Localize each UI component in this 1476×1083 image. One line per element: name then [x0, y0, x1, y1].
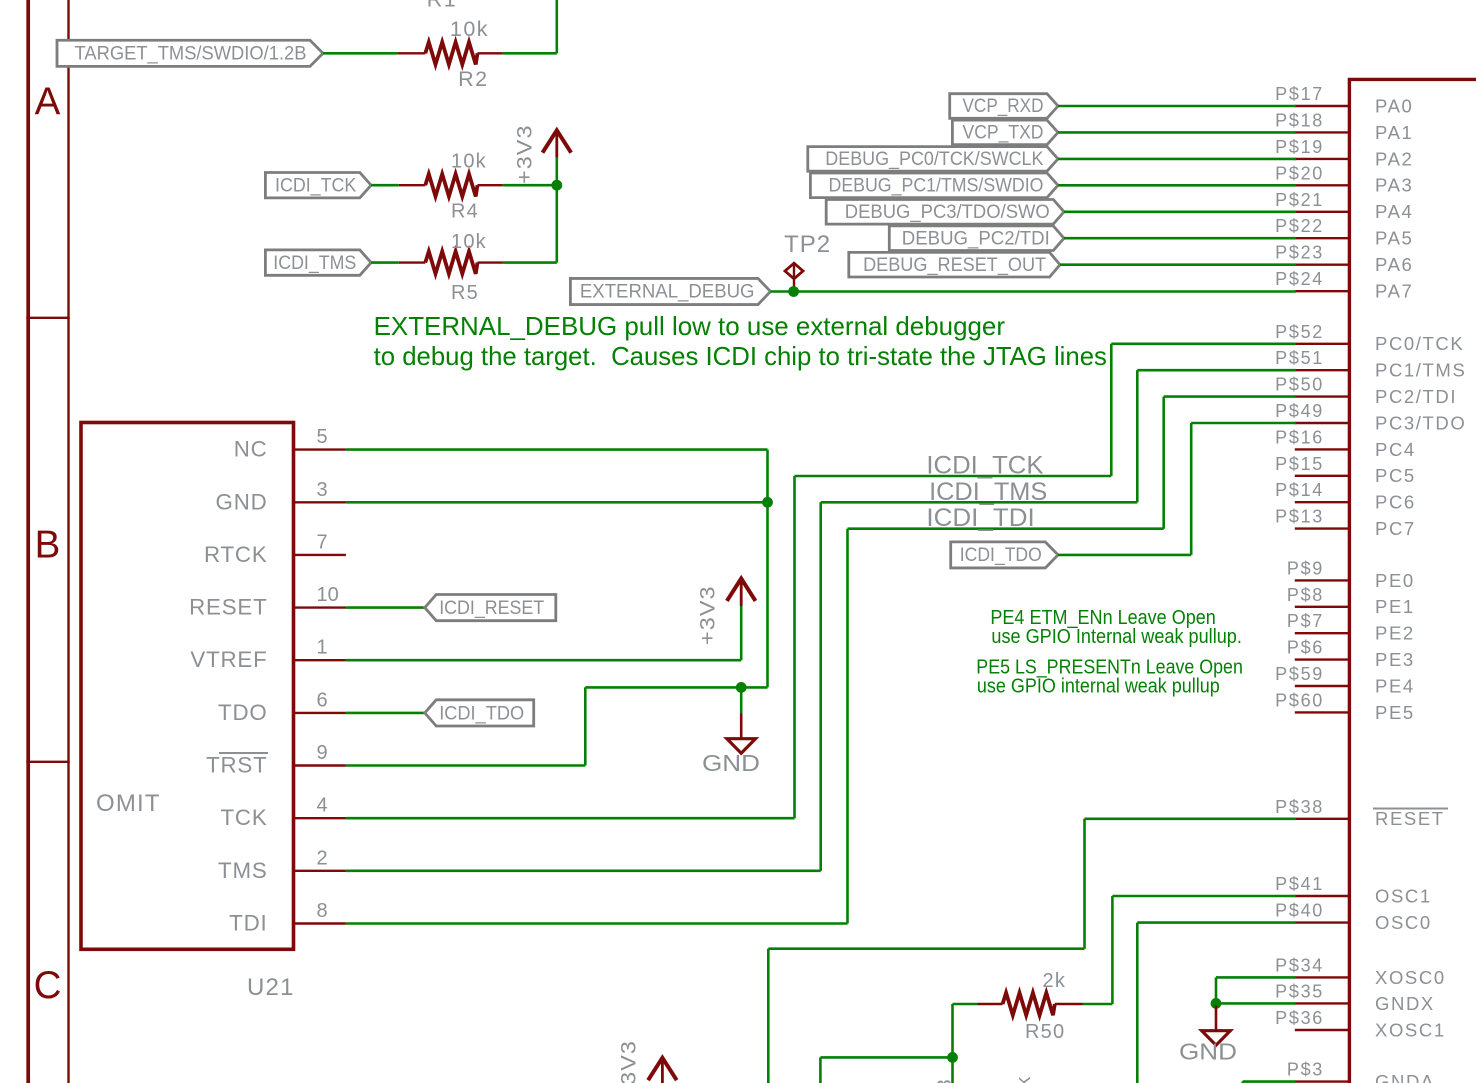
svg-text:P$22: P$22 — [1275, 216, 1324, 236]
svg-text:PE5: PE5 — [1375, 702, 1415, 723]
svg-text:PC0/TCK: PC0/TCK — [1375, 333, 1464, 354]
svg-text:10k: 10k — [450, 17, 489, 41]
resistor R50 leads — [1083, 1003, 1113, 1006]
wire RESET pin10 to flag — [346, 606, 425, 609]
svg-text:OSC1: OSC1 — [1375, 885, 1432, 906]
IC pin P$21 PA4 — [1295, 211, 1348, 213]
IC pin P$50 PC2/TDI — [1295, 395, 1348, 397]
resistor R4 — [425, 174, 477, 196]
svg-text:10k: 10k — [451, 231, 487, 253]
svg-text:ICDI_TCK: ICDI_TCK — [275, 175, 357, 196]
svg-text:2k: 2k — [1043, 970, 1067, 992]
IC pin P$6 PE3 — [1295, 658, 1348, 660]
svg-text:NC: NC — [234, 437, 268, 462]
svg-text:P$50: P$50 — [1275, 375, 1324, 395]
svg-text:R1: R1 — [427, 0, 457, 12]
wire R2 to node — [503, 52, 557, 55]
net flag ICDI_TDO (right) — [951, 542, 1058, 568]
wire OSC1 to R50 — [1112, 895, 1296, 898]
junction GNDX — [1211, 998, 1222, 1009]
svg-text:TMS: TMS — [218, 858, 267, 883]
U21 pin 3 GND — [294, 501, 346, 503]
svg-text:GNDA: GNDA — [1375, 1071, 1435, 1083]
net flag ICDI_TCK — [265, 173, 371, 198]
svg-text:DEBUG_RESET_OUT: DEBUG_RESET_OUT — [863, 255, 1046, 276]
net flag DEBUG_PC3/TDO/SWO — [826, 200, 1064, 225]
net flag ICDI_TDO (at U21) — [425, 700, 534, 726]
junction bottom — [947, 1052, 958, 1063]
svg-text:A: A — [35, 81, 61, 124]
svg-text:3: 3 — [934, 1079, 956, 1083]
svg-text:P$38: P$38 — [1275, 797, 1324, 817]
IC pin P$35 GNDX — [1295, 1002, 1348, 1004]
svg-text:P$52: P$52 — [1275, 322, 1324, 342]
IC pin P$38 RESET — [1295, 818, 1348, 820]
wire IC RESET net — [1085, 817, 1297, 820]
frame row divider B/C — [26, 761, 69, 763]
svg-text:VTREF: VTREF — [190, 647, 267, 672]
svg-text:PC4: PC4 — [1375, 439, 1416, 460]
svg-text:R2: R2 — [458, 67, 488, 91]
ground GND (U21 area) — [740, 714, 743, 739]
svg-text:P$18: P$18 — [1275, 110, 1324, 130]
U21 pin 8 TDI — [294, 922, 346, 924]
resistor R2 leads — [398, 52, 426, 54]
net flag TARGET_TMS/SWDIO/1.2B — [57, 40, 323, 66]
frame row divider A/B — [26, 317, 69, 319]
wire NC pin5 to GND net — [346, 448, 768, 451]
wire GNDX — [1216, 1002, 1296, 1005]
svg-text:PA5: PA5 — [1375, 228, 1413, 249]
svg-text:3: 3 — [317, 479, 328, 501]
svg-text:P$41: P$41 — [1275, 874, 1324, 894]
IC body (TM4C microcontroller, partially visible) — [1349, 79, 1476, 1083]
svg-text:TARGET_TMS/SWDIO/1.2B: TARGET_TMS/SWDIO/1.2B — [75, 43, 307, 65]
supply +3V3 (bottom, cut off) — [648, 1058, 677, 1080]
svg-text:ICDI_TMS: ICDI_TMS — [929, 478, 1047, 506]
svg-text:ICDI_RESET: ICDI_RESET — [439, 598, 544, 619]
wire DEBUG_PC3/TDO/SWO to IC — [1064, 211, 1296, 214]
svg-text:10: 10 — [317, 584, 339, 606]
net flag VCP_RXD — [950, 94, 1058, 119]
IC pin P$51 PC1/TMS — [1295, 369, 1348, 371]
wire VCP_RXD to IC — [1058, 105, 1296, 108]
wire DEBUG_RESET_OUT to IC — [1060, 263, 1296, 266]
wire TMS pin2 / ICDI_TMS net — [346, 869, 821, 872]
svg-text:R4: R4 — [451, 201, 479, 223]
svg-text:P$60: P$60 — [1275, 690, 1324, 710]
svg-text:8: 8 — [317, 900, 328, 922]
svg-text:P$36: P$36 — [1275, 1008, 1324, 1028]
svg-text:ICDI_TMS: ICDI_TMS — [273, 253, 356, 274]
svg-text:P$40: P$40 — [1275, 901, 1324, 921]
svg-text:DEBUG_PC1/TMS/SWDIO: DEBUG_PC1/TMS/SWDIO — [829, 176, 1044, 197]
svg-text:RTCK: RTCK — [204, 542, 268, 567]
IC pin P$49 PC3/TDO — [1295, 422, 1348, 424]
wire DEBUG_PC1/TMS/SWDIO to IC — [1058, 184, 1296, 187]
svg-text:+3V3: +3V3 — [514, 124, 537, 184]
svg-text:P$17: P$17 — [1275, 84, 1324, 104]
connector U21 body — [81, 423, 294, 950]
resistor R50 — [1003, 993, 1055, 1015]
wire ICDI_TDO to IC PC3 — [1058, 554, 1191, 557]
svg-text:P$51: P$51 — [1275, 348, 1324, 368]
resistor R5 — [425, 251, 477, 273]
resistor R5 leads — [399, 261, 426, 263]
svg-text:GND: GND — [702, 750, 760, 776]
IC pin P$36 XOSC1 — [1295, 1029, 1348, 1031]
ground GND (crystal) — [1215, 1006, 1218, 1031]
svg-text:2: 2 — [317, 847, 328, 869]
svg-text:GND: GND — [216, 489, 268, 514]
svg-text:5: 5 — [317, 426, 328, 448]
wire ICDI_TMS to R5 — [371, 261, 399, 264]
svg-text:VCP_TXD: VCP_TXD — [963, 123, 1044, 144]
IC pin P$17 PA0 — [1295, 105, 1348, 107]
IC pin P$60 PE5 — [1295, 711, 1348, 713]
IC pin P$7 PE2 — [1295, 632, 1348, 634]
IC pin P$16 PC4 — [1295, 448, 1348, 450]
svg-text:P$24: P$24 — [1275, 269, 1324, 289]
wire ICDI_TCK to R4 — [371, 184, 399, 187]
wire OSC0 down — [1137, 921, 1296, 924]
IC pin P$40 OSC0 — [1295, 921, 1348, 923]
svg-text:P$13: P$13 — [1275, 507, 1324, 527]
supply +3V3 (upper) — [543, 130, 572, 152]
svg-text:P$21: P$21 — [1275, 190, 1324, 210]
svg-text:EXTERNAL_DEBUG pull low to use: EXTERNAL_DEBUG pull low to use external … — [374, 311, 1006, 341]
svg-text:OSC0: OSC0 — [1375, 912, 1432, 933]
wire R5 to node — [503, 261, 557, 264]
svg-text:PC2/TDI: PC2/TDI — [1375, 386, 1457, 407]
IC pin P$20 PA3 — [1295, 184, 1348, 186]
svg-text:PC3/TDO: PC3/TDO — [1375, 412, 1466, 433]
wire node up to +3V3 — [555, 158, 558, 185]
resistor R2 — [425, 42, 477, 64]
svg-text:P$8: P$8 — [1287, 585, 1324, 605]
svg-text:10k: 10k — [451, 151, 487, 173]
svg-text:ICDI_TDI: ICDI_TDI — [926, 504, 1034, 532]
svg-text:PE2: PE2 — [1375, 623, 1415, 644]
IC pin P$8 PE1 — [1295, 606, 1348, 608]
wire R4 to +3V3 node — [503, 184, 557, 187]
svg-text:GND: GND — [1179, 1039, 1237, 1065]
svg-text:XOSC1: XOSC1 — [1375, 1019, 1446, 1040]
IC pin P$14 PC6 — [1295, 501, 1348, 503]
wire DEBUG_PC0/TCK/SWCLK to IC — [1058, 158, 1296, 161]
net flag EXTERNAL_DEBUG — [570, 278, 770, 304]
svg-text:PA4: PA4 — [1375, 201, 1413, 222]
wire VCP_TXD to IC — [1058, 131, 1296, 134]
wire EXTERNAL_DEBUG to IC PA7 — [771, 290, 1297, 293]
wire node R4/R5 vertical — [555, 185, 558, 262]
svg-text:GNDX: GNDX — [1375, 993, 1435, 1014]
IC pin P$13 PC7 — [1295, 527, 1348, 529]
svg-text:PE0: PE0 — [1375, 570, 1415, 591]
svg-text:P$19: P$19 — [1275, 137, 1324, 157]
svg-text:PC6: PC6 — [1375, 492, 1416, 513]
svg-text:U21: U21 — [247, 974, 295, 1001]
wire TRST pin9 to GND net — [346, 764, 585, 767]
svg-text:P$15: P$15 — [1275, 454, 1324, 474]
resistor R4 leads — [399, 184, 426, 186]
svg-text:XOSC0: XOSC0 — [1375, 967, 1446, 988]
svg-text:PA6: PA6 — [1375, 254, 1413, 275]
svg-text:RESET: RESET — [1375, 808, 1445, 829]
svg-text:TCK: TCK — [221, 805, 268, 830]
IC pin P$22 PA5 — [1295, 237, 1348, 239]
svg-text:9: 9 — [317, 742, 328, 764]
wire VTREF pin1 to +3V3 — [346, 659, 741, 662]
svg-text:+3V3: +3V3 — [697, 585, 720, 645]
svg-text:R5: R5 — [451, 282, 479, 304]
wire TDI pin8 / ICDI_TDI net — [346, 922, 848, 925]
wire TARGET_TMS to R2 — [323, 52, 398, 55]
supply +3V3 (lower) — [727, 579, 756, 601]
svg-text:P$34: P$34 — [1275, 955, 1324, 975]
svg-text:7: 7 — [317, 531, 328, 553]
svg-text:use GPIO Internal weak pullup.: use GPIO Internal weak pullup. — [991, 625, 1242, 648]
svg-text:C: C — [34, 964, 62, 1007]
IC pin P$19 PA2 — [1295, 158, 1348, 160]
svg-text:PA0: PA0 — [1375, 95, 1413, 116]
net flag DEBUG_PC0/TCK/SWCLK — [808, 147, 1058, 172]
wire R50 left to bottom circuit — [953, 1003, 978, 1006]
IC pin P$18 PA1 — [1295, 131, 1348, 133]
junction pin3/GND net — [762, 497, 773, 508]
svg-text:P$3: P$3 — [1287, 1060, 1324, 1080]
svg-text:R50: R50 — [1025, 1021, 1065, 1043]
svg-text:6: 6 — [317, 689, 328, 711]
IC pin P$34 XOSC0 — [1295, 976, 1348, 978]
svg-text:TDI: TDI — [229, 911, 267, 936]
U21 pin 10 RESET — [294, 606, 346, 608]
svg-text:+3V3: +3V3 — [617, 1040, 640, 1083]
svg-text:PE4: PE4 — [1375, 675, 1415, 696]
junction node R4/+3V3 — [551, 180, 562, 191]
svg-text:P$14: P$14 — [1275, 480, 1324, 500]
net flag DEBUG_PC2/TDI — [889, 226, 1064, 251]
U21 pin 9 TRST — [294, 764, 346, 766]
svg-text:1: 1 — [317, 637, 328, 659]
svg-text:P$7: P$7 — [1287, 611, 1324, 631]
wire GND stem — [740, 687, 743, 713]
svg-text:P$35: P$35 — [1275, 981, 1324, 1001]
net flag VCP_TXD — [952, 120, 1058, 145]
wire TCK pin4 / ICDI_TCK net — [346, 817, 795, 820]
svg-text:P$23: P$23 — [1275, 243, 1324, 263]
svg-text:P$20: P$20 — [1275, 163, 1324, 183]
svg-text:TRST: TRST — [206, 753, 267, 778]
U21 pin 7 RTCK — [294, 554, 346, 556]
svg-text:ICDI_TDO: ICDI_TDO — [439, 703, 524, 724]
svg-text:PE3: PE3 — [1375, 649, 1415, 670]
svg-text:PA3: PA3 — [1375, 175, 1413, 196]
IC pin P$15 PC5 — [1295, 475, 1348, 477]
U21 pin 5 NC — [294, 448, 346, 450]
svg-text:VCP_RXD: VCP_RXD — [963, 96, 1044, 117]
svg-text:TP2: TP2 — [784, 231, 831, 258]
svg-text:4: 4 — [317, 795, 328, 817]
svg-text:ICDI_TDO: ICDI_TDO — [960, 545, 1042, 566]
frame inner border — [67, 0, 69, 1083]
svg-text:P$49: P$49 — [1275, 401, 1324, 421]
svg-text:2k: 2k — [1013, 1076, 1035, 1083]
net flag ICDI_TMS — [265, 250, 371, 275]
IC pin P$3 GNDA — [1295, 1080, 1348, 1082]
svg-text:PC7: PC7 — [1375, 518, 1416, 539]
IC pin P$41 OSC1 — [1295, 895, 1348, 897]
wire GNDA — [1243, 1080, 1296, 1083]
wire DEBUG_PC2/TDI to IC — [1064, 237, 1296, 240]
svg-text:PE1: PE1 — [1375, 596, 1415, 617]
svg-text:ICDI_TCK: ICDI_TCK — [926, 452, 1043, 480]
net flag DEBUG_RESET_OUT — [849, 252, 1060, 277]
svg-text:P$9: P$9 — [1287, 558, 1324, 578]
net flag ICDI_RESET — [425, 595, 556, 621]
IC pin P$23 PA6 — [1295, 264, 1348, 266]
IC pin P$59 PE4 — [1295, 685, 1348, 687]
wire GND pin3 — [346, 501, 768, 504]
frame outer border — [26, 0, 30, 1083]
svg-text:B: B — [35, 524, 61, 567]
svg-text:EXTERNAL_DEBUG: EXTERNAL_DEBUG — [580, 282, 755, 303]
svg-text:DEBUG_PC3/TDO/SWO: DEBUG_PC3/TDO/SWO — [845, 202, 1050, 223]
wire TDO pin6 to flag — [346, 712, 425, 715]
wire from R1/R2 node up to top edge — [555, 0, 558, 53]
junction TP2/EXTERNAL_DEBUG — [788, 286, 799, 297]
svg-text:OMIT: OMIT — [96, 790, 161, 817]
U21 pin 2 TMS — [294, 870, 346, 872]
U21 pin 4 TCK — [294, 817, 346, 819]
wire XOSC0 to GND — [1216, 976, 1296, 979]
svg-text:PA1: PA1 — [1375, 122, 1413, 143]
svg-text:DEBUG_PC2/TDI: DEBUG_PC2/TDI — [902, 228, 1050, 249]
svg-text:to debug the target. Causes I: to debug the target. Causes ICDI chip to… — [374, 341, 1107, 371]
svg-text:P$59: P$59 — [1275, 664, 1324, 684]
svg-text:PA7: PA7 — [1375, 281, 1413, 302]
test point TP2 — [785, 263, 803, 279]
svg-text:DEBUG_PC0/TCK/SWCLK: DEBUG_PC0/TCK/SWCLK — [825, 149, 1043, 170]
svg-text:RESET: RESET — [189, 595, 267, 620]
svg-text:TDO: TDO — [218, 700, 267, 725]
svg-text:P$16: P$16 — [1275, 427, 1324, 447]
IC pin P$24 PA7 — [1295, 290, 1348, 292]
svg-text:PC5: PC5 — [1375, 465, 1416, 486]
net flag DEBUG_PC1/TMS/SWDIO — [810, 173, 1058, 198]
svg-text:PA2: PA2 — [1375, 148, 1413, 169]
U21 pin 1 VTREF — [294, 659, 346, 661]
IC pin P$9 PE0 — [1295, 579, 1348, 581]
svg-text:PC1/TMS: PC1/TMS — [1375, 360, 1466, 381]
svg-text:P$6: P$6 — [1287, 638, 1324, 658]
junction GND stem — [736, 682, 747, 693]
IC pin P$52 PC0/TCK — [1295, 343, 1348, 345]
U21 pin 6 TDO — [294, 712, 346, 714]
svg-text:use GPIO internal weak pullup: use GPIO internal weak pullup — [977, 675, 1220, 698]
